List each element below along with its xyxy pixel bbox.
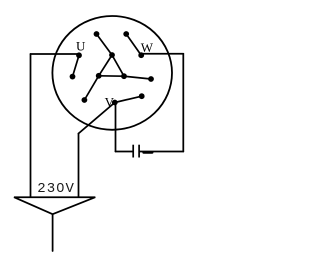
link V (K-L) (115, 96, 142, 102)
svg-text:W: W (141, 40, 154, 55)
star triangle G-I (99, 75, 124, 77)
link E-F (126, 34, 141, 55)
wire capacitor right lead thick segment (144, 151, 153, 153)
terminal dot A (U) (76, 52, 82, 58)
terminal dot E (123, 31, 129, 37)
wire V branch vertical to capacitor (115, 103, 117, 152)
terminal dot F (W) (138, 52, 144, 58)
wire capacitor left lead (116, 151, 133, 153)
terminal dot H (82, 97, 88, 103)
wire L1 supply to terminal U (31, 53, 80, 55)
wire V diagonal down-left (79, 103, 115, 134)
svg-text:U: U (76, 38, 86, 53)
winding links inside terminal box (73, 34, 152, 103)
wire left frame vertical (30, 54, 32, 197)
terminal dot G triangle bottom-left (96, 73, 102, 79)
wire terminal W to right (141, 53, 183, 55)
terminal dot D triangle apex (109, 52, 115, 58)
wire second vertical to source (78, 134, 80, 197)
link I-J (124, 76, 151, 79)
svg-text:V: V (105, 94, 115, 109)
star triangle D-I (112, 55, 124, 76)
svg-text:230V: 230V (37, 181, 75, 197)
terminal dot J (148, 76, 154, 82)
star triangle D-G (99, 55, 112, 76)
motor body circle (52, 16, 172, 130)
source 230V triangle symbol (14, 197, 95, 251)
capacitor C1 plates (133, 145, 139, 158)
label 230V zero glyph dot mask (59, 185, 62, 188)
link G-H (84, 76, 98, 100)
terminal dot L (139, 93, 145, 99)
terminal dot I triangle bottom-right (121, 73, 127, 79)
wire right vertical (182, 54, 184, 152)
terminal dot K (V) (112, 100, 118, 106)
wire capacitor right lead (140, 151, 183, 153)
link C-D (97, 34, 113, 55)
link U (A-B) (73, 55, 80, 76)
terminal dot C (94, 31, 100, 37)
wire source output stub (52, 214, 54, 251)
terminal dot B (70, 74, 76, 80)
